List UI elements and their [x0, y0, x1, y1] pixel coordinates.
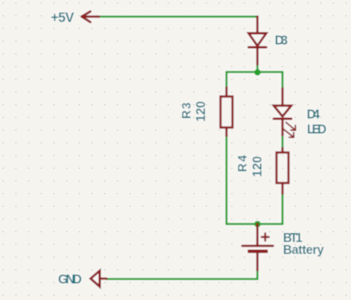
svg-text:D4: D4 — [307, 108, 320, 122]
svg-text:120: 120 — [194, 101, 208, 122]
svg-text:R3: R3 — [180, 102, 194, 119]
svg-text:+5V: +5V — [51, 10, 74, 25]
svg-text:120: 120 — [250, 156, 264, 177]
svg-text:R4: R4 — [236, 155, 250, 172]
svg-text:LED: LED — [307, 123, 327, 137]
svg-text:D3: D3 — [275, 33, 288, 47]
svg-text:GND: GND — [58, 272, 82, 287]
svg-text:Battery: Battery — [283, 243, 324, 257]
